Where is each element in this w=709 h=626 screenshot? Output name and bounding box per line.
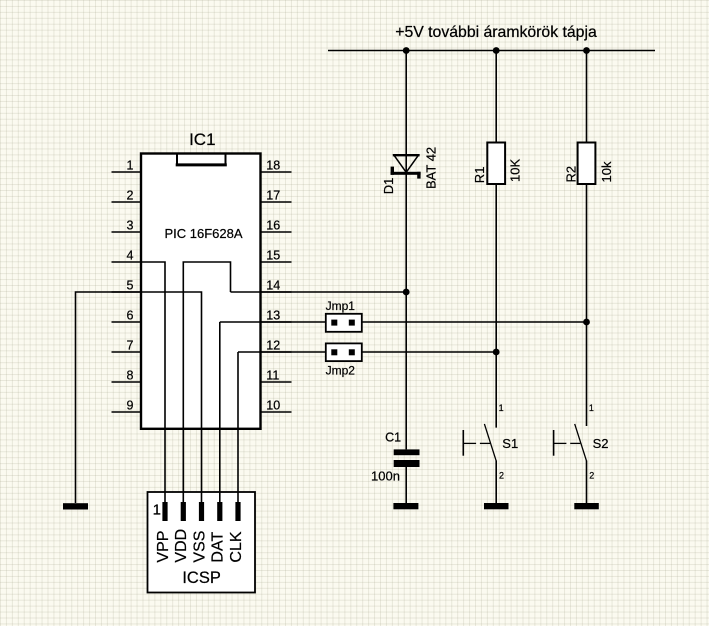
wire pin14 net to ICSP VDD internal route [183,262,230,502]
svg-text:ICSP: ICSP [182,569,221,587]
IC1 pin 7 [112,339,142,353]
svg-text:12: 12 [266,339,280,353]
svg-text:C1: C1 [385,430,401,444]
ICSP pad VPP [162,502,167,521]
svg-text:9: 9 [127,399,134,413]
svg-text:11: 11 [266,369,279,383]
junction node dot pin13-R2-S2 [583,319,590,326]
ICSP pad CLK [235,502,240,521]
IC1 pin 13 [261,309,292,323]
S2 actuator button bar [553,430,555,456]
IC1 pin 9 [112,399,142,413]
IC1 pin 1 [112,159,142,173]
ICSP pad VSS [199,502,204,521]
svg-text:1: 1 [127,159,134,173]
svg-text:S2: S2 [593,436,609,451]
svg-text:VSS: VSS [191,531,208,563]
svg-text:R2: R2 [564,166,579,183]
svg-text:Jmp1: Jmp1 [326,299,356,313]
svg-text:Jmp2: Jmp2 [326,363,356,377]
svg-text:17: 17 [266,189,280,203]
svg-text:4: 4 [127,249,134,263]
capacitor C1 top plate [394,449,420,455]
svg-text:100n: 100n [371,469,400,484]
diode D1 triangle [394,155,418,172]
IC1 pin 16 [261,219,292,233]
svg-text:+5V további áramkörök tápja: +5V további áramkörök tápja [395,24,597,41]
wire +5V rail to R2 top [586,51,588,143]
svg-text:8: 8 [127,369,134,383]
D1 schottky cathode bar [391,167,421,179]
svg-text:7: 7 [127,339,134,353]
S2 actuator shaft dashes [554,442,581,444]
ground under C1 [393,503,418,509]
IC1 pin 17 [261,189,292,203]
wire R1 bottom down to S1 [495,184,497,428]
svg-text:IC1: IC1 [189,130,215,149]
IC1 pin 5 [112,279,142,293]
svg-text:D1: D1 [381,178,396,195]
svg-text:1: 1 [589,403,594,413]
junction node dot pin14-D1-C1 [403,289,410,296]
wire S1 bottom to ground [495,461,497,504]
junction node dot pin12-R1-S1 [493,349,500,356]
svg-text:VPP: VPP [155,531,172,563]
svg-text:10K: 10K [508,159,523,182]
C1 bottom plate [394,460,420,467]
IC1 pin 2 [112,189,142,203]
S1 actuator button bar [462,430,464,456]
ground left (pin5 net) [63,503,88,509]
jumper Jmp1 body [326,314,362,332]
svg-text:2: 2 [499,470,504,480]
svg-text:S1: S1 [502,436,518,451]
resistor R1 body [487,143,505,185]
IC IC1 body box [141,154,261,429]
svg-text:6: 6 [127,309,134,323]
wire pin12 net through Jmp2 to R1/S1 node [238,351,496,353]
IC1 pin 12 [261,339,292,353]
jumper Jmp2 body [326,343,362,361]
svg-text:14: 14 [266,279,280,293]
Jmp1 pad 2 [349,320,355,326]
switch S1 blade [484,424,496,461]
wire S2 bottom to ground [586,461,588,504]
switch S2 blade [575,424,587,461]
svg-text:1: 1 [499,403,504,413]
IC1 pin 11 [261,369,292,383]
svg-text:15: 15 [266,249,280,263]
svg-text:2: 2 [127,189,134,203]
resistor R2 body [578,143,596,185]
wire pin5 net to ICSP VSS [141,292,202,502]
svg-text:5: 5 [127,279,134,293]
ICSP connector box [148,492,256,593]
Jmp1 pad 1 [331,320,337,326]
svg-text:10: 10 [266,399,280,413]
svg-text:18: 18 [266,159,280,173]
Jmp2 pad 2 [349,349,355,355]
svg-text:DAT: DAT [210,532,227,563]
svg-text:16: 16 [266,219,280,233]
svg-text:R1: R1 [472,167,487,184]
ICSP pad VDD [181,502,186,521]
svg-text:PIC 16F628A: PIC 16F628A [164,226,242,241]
IC1 pin 10 [261,399,292,413]
IC1 pin 15 [261,249,292,263]
wire +5V rail through D1 down to C1 [405,51,407,450]
IC1 pin 18 [261,159,292,173]
IC1 pin 6 [112,309,142,323]
ground under S2 [574,503,599,509]
ICSP pad DAT [217,502,222,521]
wire +5V power rail [328,50,655,52]
wire C1 to ground [405,467,407,503]
S1 actuator shaft dashes [463,442,490,444]
IC1 pin 3 [112,219,142,233]
wire pin12 net to ICSP CLK [237,352,239,502]
IC1 pin 14 [261,279,292,293]
wire pin4 net to ICSP VPP [141,262,165,502]
svg-text:1: 1 [153,502,161,519]
svg-text:BAT 42: BAT 42 [424,147,439,189]
IC1 notch mark [176,155,227,165]
svg-text:VDD: VDD [173,529,190,563]
wire pin14 net to C1/D1 node [231,291,407,293]
svg-text:3: 3 [127,219,134,233]
IC1 pin 4 [112,249,142,263]
junction node dot rail-D1 [403,47,410,54]
Jmp2 pad 1 [331,349,337,355]
wire pin13 net through Jmp1 to R2/S2 node [220,321,587,323]
svg-text:2: 2 [589,470,594,480]
svg-text:10k: 10k [599,161,614,182]
svg-text:CLK: CLK [228,531,245,562]
junction node dot rail-R2 [583,47,590,54]
junction node dot rail-R1 [493,47,500,54]
wire pin5 net to left ground [76,292,142,503]
wire pin13 net to ICSP DAT [219,322,221,502]
wire R2 bottom down to S2 [586,184,588,426]
wire +5V rail to R1 top [495,51,497,143]
IC1 pin 8 [112,369,142,383]
ground under S1 [484,503,509,509]
svg-text:13: 13 [266,309,280,323]
